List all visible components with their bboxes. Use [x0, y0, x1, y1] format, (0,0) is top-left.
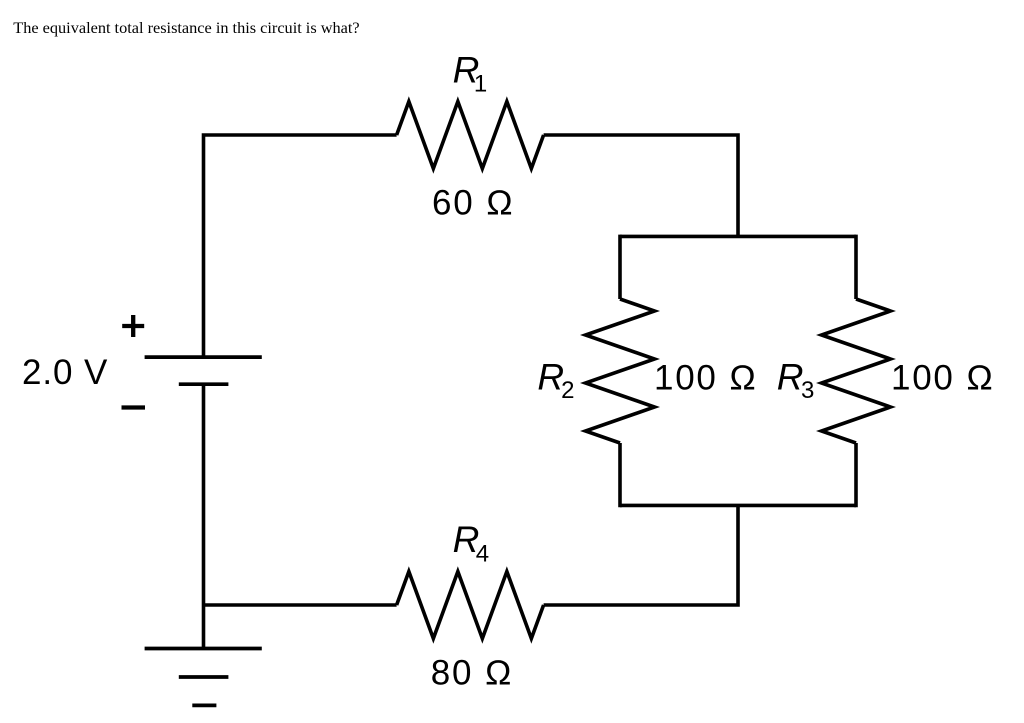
svg-text:2: 2	[561, 377, 574, 404]
svg-text:2.0 V: 2.0 V	[22, 353, 108, 392]
battery plus sign	[122, 315, 144, 337]
wire R2 top lead	[618, 235, 622, 299]
ground	[145, 647, 262, 651]
wire R3 bottom lead	[854, 443, 858, 507]
wire parallel top bar (node A)	[620, 235, 856, 239]
resistor R3	[822, 299, 891, 443]
wire top-right: from R1 right lead to corner at node A, down to parallel top bar	[544, 135, 738, 236]
battery minus sign	[122, 405, 146, 409]
svg-text:3: 3	[801, 377, 814, 404]
svg-text:4: 4	[476, 541, 489, 568]
wire top-left: from R1 left lead to top-left corner, down left rail to battery + plate	[204, 135, 397, 357]
wire R2 bottom lead	[618, 443, 622, 507]
svg-text:60 Ω: 60 Ω	[432, 184, 515, 223]
resistor R2	[586, 299, 655, 443]
battery V1 positive plate	[145, 355, 262, 359]
wire bottom-right: from node B down, left along bottom to R4 right lead	[544, 505, 738, 605]
wire left rail bottom: from battery - plate down to ground	[202, 384, 206, 648]
svg-text:80 Ω: 80 Ω	[431, 653, 514, 692]
svg-text:100 Ω: 100 Ω	[891, 358, 995, 397]
wire bottom-left: from R4 left lead to junction on left rail	[204, 603, 397, 607]
wire R3 top lead	[854, 235, 858, 299]
svg-text:R: R	[777, 357, 804, 398]
battery V1 negative plate	[179, 382, 229, 386]
resistor R1	[397, 102, 544, 169]
svg-text:The equivalent total resistanc: The equivalent total resistance in this …	[13, 18, 359, 37]
wire parallel bottom bar (node B)	[620, 504, 856, 508]
svg-text:1: 1	[474, 71, 487, 98]
svg-text:100 Ω: 100 Ω	[654, 358, 758, 397]
resistor R4	[397, 572, 544, 639]
